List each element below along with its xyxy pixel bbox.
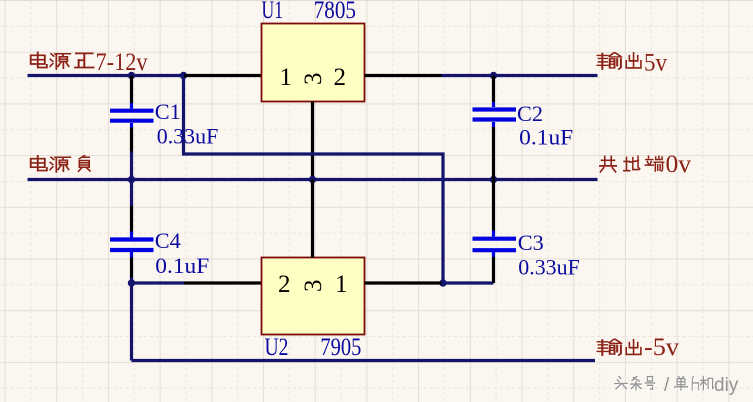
net label 电源正7-12v xyxy=(31,52,94,69)
svg-text:-5v: -5v xyxy=(644,334,680,361)
node junction at C2 top xyxy=(490,72,497,79)
svg-text:C3: C3 xyxy=(518,230,544,255)
node junction pin3 ground xyxy=(309,176,316,183)
node junction at U2 pin1 / C3 xyxy=(439,279,446,286)
wire: bottom -5v rail xyxy=(132,359,596,362)
svg-text:U1: U1 xyxy=(262,0,284,24)
svg-text:3: 3 xyxy=(300,280,327,293)
svg-text:7805: 7805 xyxy=(314,0,356,24)
svg-text:diy: diy xyxy=(714,375,739,396)
capacitor C2 column leads xyxy=(492,76,495,103)
node junction C2/C3 ground xyxy=(490,176,497,183)
svg-text:0.33uF: 0.33uF xyxy=(518,255,580,280)
capacitor C3 column leads xyxy=(492,180,495,231)
node junction at bypass takeoff xyxy=(180,72,187,79)
svg-text:5v: 5v xyxy=(644,50,667,77)
node junction C1 bottom xyxy=(128,176,135,183)
svg-text:/: / xyxy=(664,375,670,396)
capacitor C1 plates xyxy=(110,109,154,113)
capacitor C2 plates xyxy=(473,107,517,111)
wire: top positive rail xyxy=(28,74,185,77)
wire: bypass from input node down and across to U2 pin 1 xyxy=(184,77,444,283)
svg-text:C1: C1 xyxy=(155,99,181,124)
U1 pin 3 wire (black, down to ground) xyxy=(311,102,314,180)
net label 电源负 xyxy=(31,155,90,172)
svg-text:2: 2 xyxy=(278,271,291,298)
svg-text:U2: U2 xyxy=(265,334,289,361)
svg-text:0.33uF: 0.33uF xyxy=(157,124,219,149)
U1 7805 body xyxy=(262,24,365,102)
net label 输出5v xyxy=(597,52,641,69)
U2 pin 3 wire (black, up to ground) xyxy=(311,180,314,258)
capacitor C3 plates xyxy=(473,237,517,241)
svg-text:C2: C2 xyxy=(517,101,543,126)
svg-text:C4: C4 xyxy=(155,228,181,253)
wire: junction to C3 bottom xyxy=(443,281,494,284)
svg-text:0.1uF: 0.1uF xyxy=(519,125,573,150)
svg-text:3: 3 xyxy=(300,73,327,86)
svg-text:0v: 0v xyxy=(666,151,692,178)
watermark 头条号 / 单片机diy xyxy=(616,378,715,392)
wire: C4 bottom to bottom rail xyxy=(130,278,133,361)
node junction at U2 pin2 branch xyxy=(128,279,135,286)
svg-text:1: 1 xyxy=(335,271,348,298)
op-amp U1 pin 1 wire (black) xyxy=(184,74,262,77)
capacitor C4 plates xyxy=(110,237,154,241)
wire: to U2 pin 2 xyxy=(132,281,185,284)
U1 pin 2 wire (black) xyxy=(365,74,442,77)
net label 输出-5v xyxy=(597,339,641,355)
capacitor C1 column leads xyxy=(130,76,133,104)
node junction at C1 top xyxy=(128,72,135,79)
net label 共地端0v xyxy=(600,156,664,172)
U2 pin 1 wire (black) xyxy=(365,281,442,284)
wire: output 5v rail xyxy=(442,74,598,77)
capacitor C4 column leads xyxy=(130,206,133,232)
wire: ground rail xyxy=(28,178,598,181)
svg-text:1: 1 xyxy=(280,64,293,91)
svg-text:7905: 7905 xyxy=(320,334,361,361)
svg-text:2: 2 xyxy=(334,64,347,91)
U2 7905 body xyxy=(262,258,365,335)
svg-text:7-12v: 7-12v xyxy=(96,49,148,76)
svg-text:0.1uF: 0.1uF xyxy=(155,253,209,278)
wire: C1 to ground segment (blue) xyxy=(130,152,133,207)
U2 pin 2 wire (black) xyxy=(184,281,262,284)
